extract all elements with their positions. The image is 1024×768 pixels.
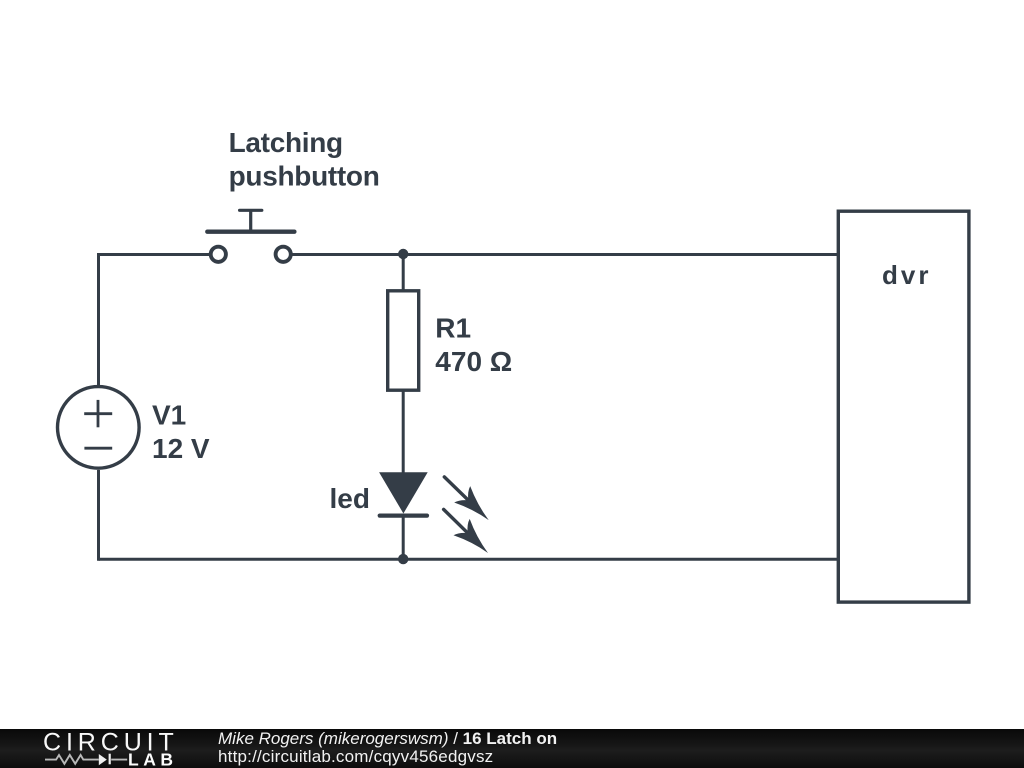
logo diode <box>99 754 107 765</box>
footer line 2 <box>218 747 493 767</box>
wire from pushbutton right terminal to dvr box <box>292 253 838 256</box>
LED light arrow 1 <box>444 477 488 520</box>
svg-text:pushbutton: pushbutton <box>229 160 380 191</box>
voltage source V1 <box>58 387 140 469</box>
footer line 1 <box>218 729 557 749</box>
svg-text:Latching: Latching <box>229 127 343 158</box>
svg-text:LAB: LAB <box>128 750 177 768</box>
wire from pushbutton left terminal to voltage source (left leg) <box>99 255 211 386</box>
resistor R1 body <box>388 291 419 390</box>
svg-text:dvr: dvr <box>882 260 931 290</box>
svg-text:led: led <box>330 483 370 514</box>
svg-text:V1: V1 <box>152 399 186 430</box>
pushbutton stem <box>249 210 252 230</box>
dvr box <box>838 211 969 602</box>
bottom rail wire <box>99 558 839 561</box>
svg-text:12 V: 12 V <box>152 433 210 464</box>
LED light arrow 2 <box>444 509 488 553</box>
pushbutton left contact circle <box>211 247 226 262</box>
svg-text:470 Ω: 470 Ω <box>435 346 512 377</box>
wire junction to resistor top <box>402 255 405 292</box>
pushbutton actuator bar <box>207 230 294 234</box>
svg-text:R1: R1 <box>435 312 471 343</box>
LED cathode bar <box>380 513 427 517</box>
label V1 12 V <box>152 399 210 464</box>
pushbutton SW1 <box>207 210 294 262</box>
LED D1 triangle <box>379 472 428 513</box>
CircuitLab logo <box>0 729 200 768</box>
pushbutton cap bar <box>240 209 262 212</box>
wire from voltage source bottom to bottom rail <box>97 470 100 561</box>
label R1 470 Ω <box>435 312 512 377</box>
node junction dot top <box>398 249 408 259</box>
pushbutton right contact circle <box>276 247 291 262</box>
label Latching pushbutton <box>229 127 380 191</box>
wire resistor bottom to LED anode <box>402 391 405 473</box>
node junction dot bottom <box>398 554 408 564</box>
logo squiggle: lead, resistor zigzag <box>45 755 127 764</box>
wire LED cathode to bottom rail <box>402 515 405 559</box>
footer bar <box>0 729 1024 768</box>
